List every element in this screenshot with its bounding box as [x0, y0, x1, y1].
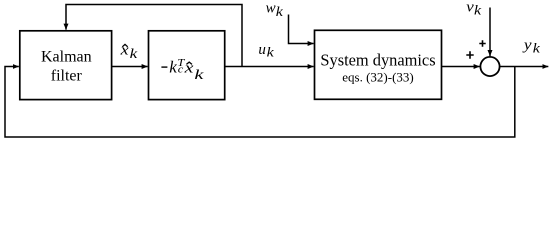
wire v_k input into summing junction	[489, 8, 491, 57]
svg-text:y: y	[522, 37, 533, 53]
svg-text:k: k	[169, 58, 177, 77]
wire u_k : controller to System dynamics	[226, 66, 314, 68]
svg-text:w: w	[266, 1, 276, 17]
Kalman filter block	[20, 31, 112, 100]
node label u_k	[258, 42, 274, 60]
svg-text:x: x	[183, 59, 193, 76]
controller value label -kc^T x^k	[161, 58, 203, 83]
wire xhat_k : Kalman filter to controller	[112, 66, 148, 68]
node label xhat_k	[120, 41, 139, 62]
svg-text:filter: filter	[51, 68, 83, 85]
svg-text:x: x	[120, 41, 130, 58]
wire w_k input into System dynamics	[289, 15, 314, 44]
node label y_k	[522, 37, 541, 56]
wire feedback of y_k to Kalman filter (bottom loop)	[5, 67, 515, 138]
wire feedback of u_k to Kalman filter (top loop)	[66, 5, 242, 67]
svg-text:u: u	[258, 42, 266, 58]
wire y_k output	[500, 66, 549, 68]
System dynamics block	[315, 30, 442, 99]
node label w_k	[266, 1, 284, 20]
wire System dynamics output to summing junction	[442, 66, 480, 68]
plus sign for system output input	[466, 51, 473, 58]
svg-text:eqs. (32)-(33): eqs. (32)-(33)	[342, 69, 413, 84]
svg-text:k: k	[130, 46, 139, 61]
svg-text:System dynamics: System dynamics	[320, 51, 435, 70]
svg-text:k: k	[276, 5, 284, 20]
node label v_k	[466, 0, 481, 18]
svg-text:k: k	[267, 46, 275, 61]
svg-text:Kalman: Kalman	[41, 49, 92, 66]
controller block U (-kcT xk)	[149, 31, 225, 100]
svg-text:k: k	[474, 4, 482, 19]
svg-text:k: k	[194, 66, 203, 82]
plus sign for v_k input	[479, 40, 485, 46]
svg-text:k: k	[533, 42, 541, 57]
svg-text:c: c	[178, 65, 184, 76]
summing junction	[480, 57, 499, 76]
